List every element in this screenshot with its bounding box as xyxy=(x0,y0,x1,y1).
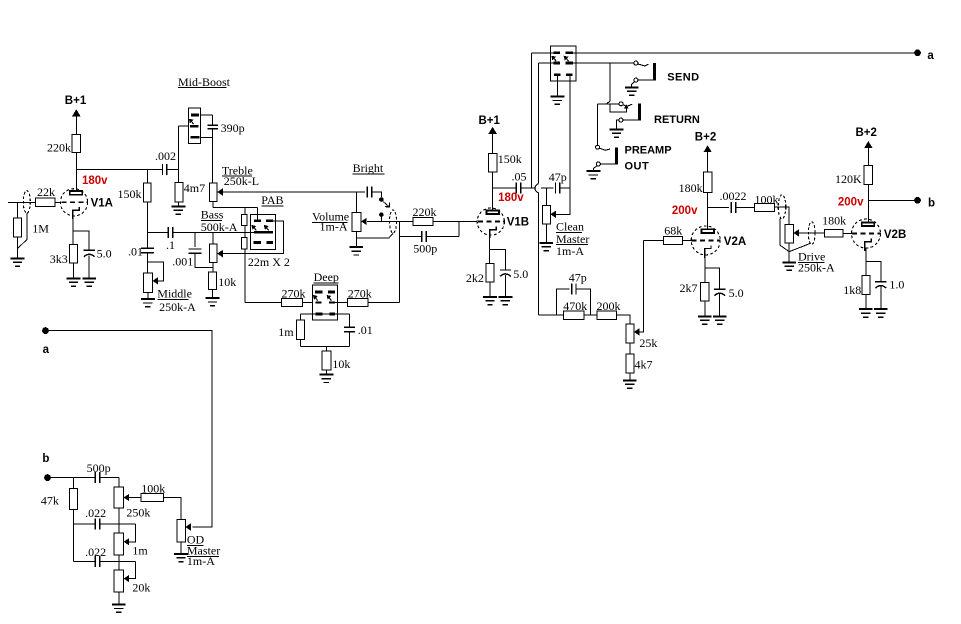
wire 1M top lead xyxy=(17,202,19,218)
svg-text:.001: .001 xyxy=(172,255,193,269)
potentiometer Middle 250k-A (box) xyxy=(143,273,152,292)
wire 500p riser to grid row xyxy=(458,221,460,236)
potentiometer Clean Master 1m-A (box) xyxy=(542,205,550,224)
resistor 150k (tone slope) xyxy=(144,183,152,202)
wire .01 to bottom rail xyxy=(349,332,351,347)
wire .002 right to mid-boost column xyxy=(167,168,178,170)
wire V1B plate row xyxy=(493,187,517,189)
ground (SEND) xyxy=(625,87,639,95)
wire 47p to fx column 3 xyxy=(560,187,570,189)
FX switch bottom-left contact xyxy=(554,73,560,76)
SEND jack (bar) xyxy=(653,63,656,80)
svg-text:3k3: 3k3 xyxy=(50,252,68,266)
svg-text:470k: 470k xyxy=(563,299,587,313)
wire 5.0 V1B to ground xyxy=(504,275,506,297)
wire Bass top lead xyxy=(212,232,214,244)
switch Deep (box) xyxy=(313,285,338,320)
wire input grid line xyxy=(8,201,61,203)
bright switch contact upper xyxy=(379,197,384,202)
PAB bottom-left contact xyxy=(254,241,261,244)
svg-text:.002: .002 xyxy=(155,149,176,163)
V2A cathode xyxy=(705,245,711,258)
capacitor 22m #1 (PAB) xyxy=(242,215,247,226)
svg-text:Deep: Deep xyxy=(314,270,339,284)
terminal a (top) xyxy=(914,49,921,56)
switch Mid-Boost (box) xyxy=(189,108,201,143)
wire 1m branch (deep) xyxy=(300,314,302,320)
capacitor .002 (coupling) xyxy=(163,164,167,175)
potentiometer Treble 250k-L (box) xyxy=(209,183,217,201)
wire RETURN arrow loop xyxy=(610,104,626,112)
switch FX loop (box) xyxy=(550,46,575,81)
triode V1B xyxy=(477,208,504,235)
ground (input) xyxy=(11,258,25,266)
wire return jog to NC contact xyxy=(597,103,619,105)
svg-text:25k: 25k xyxy=(639,336,657,350)
wire bright cap feed xyxy=(357,191,365,193)
Bass wiper arrow xyxy=(217,250,223,257)
1m wiper arrow xyxy=(124,538,130,545)
resistor 120K (V2B plate) xyxy=(864,166,872,185)
V2B plate xyxy=(862,222,874,226)
resistor 1k8 (V2B cathode) xyxy=(862,275,870,294)
svg-text:.022: .022 xyxy=(85,506,106,520)
bright switch blade xyxy=(383,202,389,207)
wire terminal a to OD master riser xyxy=(49,331,212,527)
wire 200k to 25k xyxy=(617,315,630,324)
svg-text:20k: 20k xyxy=(132,581,150,595)
wire Treble wiper output row xyxy=(223,191,357,193)
wire mid-boost switch wiper feed xyxy=(178,125,190,127)
mid-boost switch arrow xyxy=(192,121,194,124)
wire mixer row left xyxy=(539,314,564,316)
wire 47k hang xyxy=(72,478,74,489)
svg-text:2k2: 2k2 xyxy=(466,271,484,285)
wire V1B cathode lead xyxy=(489,236,491,264)
wire fx column 2 upper (moving to switch) xyxy=(538,63,540,184)
input jack shielded cable xyxy=(23,191,30,214)
wire Bass bottom to 10k xyxy=(212,262,214,272)
wire 1m pot column xyxy=(118,524,120,533)
capacitor .022 #2 (od) xyxy=(95,556,99,567)
svg-text:180k: 180k xyxy=(822,214,846,228)
power arrow B+1 (V1B) xyxy=(488,127,496,134)
svg-text:180v: 180v xyxy=(498,192,524,204)
wire 470k bypass right leg xyxy=(576,289,591,315)
svg-text:22m X 2: 22m X 2 xyxy=(248,255,290,269)
wire return drop junction xyxy=(609,63,611,101)
ground (5.0 V1A) xyxy=(82,278,96,286)
ground (1k8) xyxy=(859,309,873,317)
potentiometer 250k (od, box) xyxy=(114,487,123,508)
wire 1m wiper loop xyxy=(129,524,135,542)
svg-text:PAB: PAB xyxy=(261,193,283,207)
wire 22m mid link xyxy=(244,226,246,238)
V1A grid (dashed) xyxy=(62,201,89,203)
capacitor .01 (deep) xyxy=(344,327,355,331)
svg-text:500p: 500p xyxy=(87,461,111,475)
svg-text:180v: 180v xyxy=(82,175,108,187)
wire .0022 to 100k xyxy=(736,207,755,209)
svg-text:250k-A: 250k-A xyxy=(159,300,196,314)
power arrow B+1 (V1A) xyxy=(72,109,80,116)
wire deep bottom rail xyxy=(301,345,350,347)
wire V2B cathode lead xyxy=(865,248,867,275)
svg-text:180k: 180k xyxy=(679,181,703,195)
resistor 100k (drive feed) xyxy=(755,203,775,211)
RETURN jack sleeve contact xyxy=(619,118,623,122)
SEND jack tip contact xyxy=(634,61,638,65)
cable ellipse (drive to 180k) xyxy=(808,222,815,245)
FX switch arrow left xyxy=(554,58,556,61)
wire drive shield 2 xyxy=(789,243,810,252)
wire b row right of 500p xyxy=(100,477,119,479)
svg-text:120K: 120K xyxy=(835,172,862,186)
FX switch moving contact left xyxy=(553,62,560,65)
wire 20k wiper loop xyxy=(129,562,135,579)
svg-text:Middle: Middle xyxy=(157,287,192,301)
cable ellipse (volume to 220k) xyxy=(390,210,397,233)
resistor 270k (deep left) xyxy=(282,299,303,307)
triode V1A xyxy=(60,189,87,216)
mid-boost switch moving contact xyxy=(190,125,199,128)
svg-text:B+2: B+2 xyxy=(695,131,716,143)
wire Middle wiper loop xyxy=(147,262,163,281)
wire mid-boost bottom contact to 390p node xyxy=(200,136,212,138)
svg-text:500p: 500p xyxy=(413,241,437,255)
svg-text:100k: 100k xyxy=(755,192,779,206)
svg-text:200k: 200k xyxy=(597,299,621,313)
V2B grid (dashed) xyxy=(852,233,881,235)
ground (4k7) xyxy=(623,380,637,388)
ground (2k7) xyxy=(698,316,712,324)
wire 500p row xyxy=(400,236,422,238)
resistor 150k (V1B plate) xyxy=(488,154,496,173)
svg-text:B+2: B+2 xyxy=(856,127,877,139)
wire RETURN sleeve to ground xyxy=(617,120,619,129)
mid-boost switch top contact xyxy=(191,114,199,117)
svg-text:1k8: 1k8 xyxy=(843,283,861,297)
resistor 1M (input load) xyxy=(13,218,21,237)
wire treble-bass node row xyxy=(213,206,257,208)
svg-text:2k7: 2k7 xyxy=(680,281,698,295)
svg-text:220k: 220k xyxy=(47,141,71,155)
wire fx column 2 lower (to mixer row) xyxy=(538,193,540,316)
wire 100k to drive pot xyxy=(775,207,790,225)
svg-text:1m: 1m xyxy=(278,325,294,339)
wire V1B plate lead xyxy=(492,172,494,211)
svg-text:390p: 390p xyxy=(221,121,245,135)
wire cathode bypass branch V1A xyxy=(73,231,89,251)
svg-text:10k: 10k xyxy=(218,275,236,289)
resistor 10k (deep) xyxy=(322,351,331,370)
resistor 3k3 (V1A cathode) xyxy=(70,244,78,263)
Deep moving contact left xyxy=(315,301,321,303)
ground (OD Master) xyxy=(174,554,188,562)
wire bright cap to switch xyxy=(372,192,382,197)
V2A grid (dashed) xyxy=(692,239,721,241)
ground (Volume) xyxy=(349,247,363,255)
Deep switch arrow left xyxy=(316,298,318,301)
Deep bottom-right contact xyxy=(330,313,336,316)
wire Treble bottom to bass row xyxy=(212,201,214,207)
wire FX inside stubs xyxy=(550,53,575,63)
wire 22k to V1A grid xyxy=(55,201,61,203)
potentiometer 20k (od, box) xyxy=(114,570,123,592)
wire fx switch top-left feed xyxy=(532,52,551,54)
wire V1A plate lead xyxy=(75,152,77,191)
wire drive pot bottom xyxy=(788,243,790,262)
wire 250k riser xyxy=(118,478,120,488)
capacitor 5.0 (V1A cathode bypass) xyxy=(84,250,95,256)
potentiometer Bass 500k-A (box) xyxy=(209,244,217,262)
resistor 2k7 (V2A cathode) xyxy=(701,283,709,301)
V1A plate xyxy=(70,191,82,195)
RETURN tip arrow xyxy=(624,104,629,108)
wire SEND sleeve to bar xyxy=(638,79,653,81)
svg-text:47k: 47k xyxy=(41,494,59,508)
SEND jack sleeve contact xyxy=(634,78,638,82)
wire 5.0 to ground xyxy=(88,255,90,278)
svg-text:Bright: Bright xyxy=(353,161,384,175)
wire input shield to ground xyxy=(18,213,28,248)
PREAMP OUT jack blade xyxy=(600,148,610,150)
wire fx column 3 (switch to clean master wiper) xyxy=(556,75,570,215)
PAB top-right contact xyxy=(266,219,273,222)
FX switch top-left contact xyxy=(553,51,560,54)
wire b row xyxy=(51,477,96,479)
wire 22m bottom column to deep row xyxy=(244,249,246,303)
wire 390p column xyxy=(212,115,214,125)
wire volume wiper row xyxy=(367,220,413,222)
V1A cathode xyxy=(73,207,79,219)
ground (20k) xyxy=(112,605,126,613)
wire B+1 feed V1A xyxy=(75,117,77,135)
potentiometer Drive 250k-A (box) xyxy=(785,225,793,243)
SEND jack blade xyxy=(638,64,648,66)
mid-boost switch bottom contact xyxy=(191,136,200,139)
wire slope column to .01 xyxy=(146,202,148,248)
wire 5.0 V2A to ground xyxy=(719,294,721,316)
wire 10k-deep to ground xyxy=(325,370,327,375)
20k wiper arrow xyxy=(124,575,130,582)
svg-text:a: a xyxy=(43,344,50,356)
svg-text:10k: 10k xyxy=(332,357,350,371)
svg-text:PREAMP: PREAMP xyxy=(625,145,672,157)
FX switch top-right contact xyxy=(566,51,573,54)
Deep top-left contact xyxy=(315,291,323,294)
svg-text:4k7: 4k7 xyxy=(635,357,653,371)
capacitor Bright (switchable) xyxy=(367,187,371,198)
wire plate row to 47p xyxy=(546,187,553,189)
bright switch contact lower xyxy=(379,212,384,217)
Middle wiper arrow xyxy=(153,277,159,284)
ground (5.0 V2A) xyxy=(713,316,727,324)
wire 1M bottom lead xyxy=(17,237,19,258)
wire 470k bypass left leg xyxy=(557,289,570,315)
capacitor 47p (clean master) xyxy=(556,183,560,194)
resistor 4k7 xyxy=(626,354,634,373)
power arrow B+2 (V2B) xyxy=(864,141,872,148)
FX switch arrow right xyxy=(566,58,568,61)
svg-text:RETURN: RETURN xyxy=(654,114,700,126)
svg-text:1m-A: 1m-A xyxy=(556,244,584,258)
capacitor .05 (clean coupling) xyxy=(516,183,520,194)
terminal a (bottom) xyxy=(42,327,49,334)
resistor 220k (V1B grid) xyxy=(413,217,433,225)
wire 2k2 to ground xyxy=(489,282,491,297)
wire .022 row 2 left column xyxy=(72,524,74,561)
wire deep row left xyxy=(245,302,282,304)
wire volume shield branch xyxy=(357,233,394,238)
resistor 180k (V2A plate) xyxy=(704,172,713,192)
svg-text:22k: 22k xyxy=(37,185,55,199)
resistor 10k (tone return) xyxy=(209,272,217,290)
resistor 22k (grid stopper) xyxy=(35,198,55,206)
ground (Drive) xyxy=(782,262,796,270)
svg-text:270k: 270k xyxy=(282,287,306,301)
ground (PREAMP OUT) xyxy=(587,171,601,179)
wire 68k to V2A grid xyxy=(682,240,691,242)
wire cathode bypass branch V1B xyxy=(490,250,506,271)
svg-text:220k: 220k xyxy=(413,205,437,219)
PAB bottom-right contact xyxy=(266,241,273,244)
PREAMP OUT jack (bar) xyxy=(615,148,618,165)
switch PAB (box) xyxy=(250,214,275,249)
svg-text:150k: 150k xyxy=(118,187,142,201)
svg-text:1M: 1M xyxy=(32,222,49,236)
capacitor 1.0 (V2B cathode bypass) xyxy=(875,282,886,288)
ground (5.0 V1B) xyxy=(499,297,513,305)
triode V2B xyxy=(852,219,881,248)
resistor 200k (mixer) xyxy=(597,311,617,319)
svg-text:500k-A: 500k-A xyxy=(201,220,238,234)
Deep switch arrow right xyxy=(329,298,331,301)
wire .1 row (slope to bass/PAB) xyxy=(147,231,168,233)
Treble wiper arrow xyxy=(217,188,223,195)
RETURN jack (bar) xyxy=(638,104,641,121)
svg-text:b: b xyxy=(42,453,49,465)
RETURN jack NC contact xyxy=(619,102,623,106)
wire PAB top-right contact loop to bass wiper xyxy=(223,221,284,254)
wire .022 row 1 xyxy=(73,523,95,525)
wire 1m bottom to 20k xyxy=(118,555,120,570)
capacitor .01 (middle) xyxy=(141,248,154,252)
svg-text:5.0: 5.0 xyxy=(97,246,112,260)
wire 22m top cap lead xyxy=(244,207,246,214)
resistor 47k (od) xyxy=(69,489,77,510)
wire 180k to V2B grid xyxy=(843,232,852,234)
svg-text:5.0: 5.0 xyxy=(513,267,528,281)
svg-text:1m-A: 1m-A xyxy=(187,554,215,568)
wire 1k8 to ground xyxy=(865,295,867,310)
wire crossover hop (column 2 over plate row) xyxy=(535,184,539,193)
svg-text:V2A: V2A xyxy=(724,236,746,248)
PAB moving contact bar xyxy=(254,231,273,234)
ground (Middle) xyxy=(141,299,155,307)
wire 470k to 200k xyxy=(584,314,597,316)
PAB top-left contact xyxy=(254,219,261,222)
wire cathode bypass branch V2A xyxy=(705,268,720,289)
250k wiper arrow xyxy=(124,494,130,501)
capacitor 22m #2 (PAB) xyxy=(242,238,247,250)
ground (10k tone) xyxy=(206,298,220,306)
Drive wiper arrow xyxy=(793,229,799,236)
wire 270k-right to riser xyxy=(368,302,400,304)
wire .001 hang lead xyxy=(194,232,196,247)
Deep moving contact right xyxy=(329,301,335,303)
FX switch moving contact right xyxy=(566,62,573,65)
svg-text:200v: 200v xyxy=(838,197,864,209)
25k wiper arrow xyxy=(634,328,640,335)
capacitor 47p (470k bypass) xyxy=(572,283,576,294)
svg-text:b: b xyxy=(928,198,935,210)
wire PREAMP OUT sleeve to ground xyxy=(593,166,597,171)
PAB switch arrow right xyxy=(267,228,269,231)
wire 250k wiper to 100k xyxy=(129,497,141,499)
wire .01 to middle pot xyxy=(146,253,148,273)
bright switch blade arrowhead xyxy=(385,202,390,207)
svg-text:1m-A: 1m-A xyxy=(320,219,348,233)
svg-text:.01: .01 xyxy=(358,323,373,337)
terminal b (top) xyxy=(914,197,921,204)
svg-text:B+1: B+1 xyxy=(65,95,87,107)
svg-text:.1: .1 xyxy=(166,238,175,252)
wire B+2 feed V2B xyxy=(867,146,869,165)
wire 4m7 to ground xyxy=(177,202,179,206)
wire V1A plate node row xyxy=(76,168,162,170)
wire .022 row 2 right xyxy=(100,561,136,563)
wire 1m to bottom rail xyxy=(300,340,302,347)
svg-text:100k: 100k xyxy=(141,482,165,496)
wire 10k hang (deep) xyxy=(325,346,327,351)
wire 1.0 to ground xyxy=(880,287,882,310)
wire 150k hang lead xyxy=(146,169,148,183)
wire 250k bottom to row1 xyxy=(118,508,120,524)
capacitor .0022 (od coupling) xyxy=(731,202,735,213)
wire 10k to ground xyxy=(212,290,214,298)
wire 500p branch down xyxy=(399,221,401,236)
ground (4m7) xyxy=(172,206,186,214)
PREAMP OUT jack tip contact xyxy=(596,145,600,149)
Volume wiper arrow xyxy=(361,218,367,225)
wire OD master to ground xyxy=(180,542,182,554)
wire plate row hop to clean node xyxy=(541,187,553,189)
svg-text:.022: .022 xyxy=(85,545,106,559)
resistor 180k (V2B grid) xyxy=(825,230,844,238)
svg-text:150k: 150k xyxy=(498,152,522,166)
ground (RETURN) xyxy=(610,129,624,137)
wire PAB top-left contact stub xyxy=(257,207,259,221)
wire 270k-left to deep switch xyxy=(302,302,315,304)
wire V2A plate row xyxy=(708,207,730,209)
capacitor .1 (bass) xyxy=(168,227,172,238)
wire SEND sleeve to ground xyxy=(632,82,635,88)
resistor 1m (deep) xyxy=(297,320,305,340)
svg-text:V1B: V1B xyxy=(507,216,529,228)
wire 25k to 4k7 xyxy=(629,343,631,354)
wire fx column 1 (clean to switch) xyxy=(531,53,533,188)
svg-text:.0022: .0022 xyxy=(720,189,747,203)
svg-text:SEND: SEND xyxy=(667,72,699,84)
wire V2A plate lead xyxy=(707,192,709,229)
svg-text:200v: 200v xyxy=(672,205,698,217)
wire V2A cathode lead xyxy=(704,255,706,283)
ground (2k2) xyxy=(483,297,497,305)
wire 47k to .022 row 1 xyxy=(72,509,74,524)
wire .1 row right of cap xyxy=(173,231,254,233)
wire V1A cathode lead xyxy=(72,217,74,245)
